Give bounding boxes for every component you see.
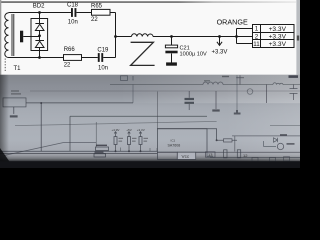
white panel background — [0, 0, 300, 75]
inductor bumps right-1 — [203, 82, 223, 85]
left bus pin stubs — [121, 148, 158, 152]
left edge sliver — [0, 0, 1, 75]
svg-text:+3.3V: +3.3V — [269, 26, 287, 33]
diagonal fold wire — [4, 143, 96, 156]
pin 13 box — [206, 152, 216, 157]
bridge BD2 box — [31, 19, 48, 51]
mid ground — [234, 110, 241, 114]
photo background — [0, 75, 300, 168]
cap to ground top right — [236, 75, 244, 84]
wire: C18 to R65 — [77, 12, 92, 14]
node: bridge mid junction — [38, 34, 41, 37]
transformer T1 primary coil — [5, 13, 9, 58]
speaker blob — [188, 91, 190, 110]
line y125 right — [270, 125, 300, 127]
svg-text:IC1: IC1 — [171, 139, 176, 143]
right cluster labels — [280, 134, 287, 135]
capacitor C21 leads — [171, 37, 173, 63]
svg-text:11: 11 — [253, 41, 260, 48]
capacitor C18 plates — [71, 8, 73, 17]
supply arrow 2 — [128, 132, 131, 137]
right edge sliver — [296, 0, 300, 75]
svg-text:R65: R65 — [91, 4, 103, 10]
bottom black band — [0, 161, 300, 168]
svg-text:+3.3V: +3.3V — [269, 41, 287, 48]
svg-text:1: 1 — [255, 26, 259, 33]
left vignette of photo — [0, 75, 9, 168]
IC top wire — [157, 129, 216, 141]
wire: main +3.3V bus — [116, 36, 253, 38]
capacitor C19 plates — [98, 53, 100, 62]
svg-text:10n: 10n — [98, 66, 108, 72]
svg-text:C19: C19 — [97, 47, 109, 53]
IC box — [157, 129, 207, 153]
resistor vert 3 — [139, 137, 142, 145]
diode circle part — [247, 89, 253, 95]
left horiz resistor 2 — [94, 154, 106, 157]
L wire mid — [70, 116, 207, 151]
svg-text:SA7608: SA7608 — [168, 144, 181, 148]
wire: bridge top lead — [39, 13, 41, 24]
node: arrow tap — [218, 35, 221, 38]
transistor circle — [277, 143, 283, 149]
svg-text:22: 22 — [64, 63, 71, 69]
svg-text:10n: 10n — [68, 20, 78, 26]
resistor R65 body — [92, 9, 111, 15]
inductor bumps right-2 — [273, 83, 283, 85]
bus right segment — [196, 152, 300, 157]
supply arrow 3 — [139, 132, 142, 137]
IC sub box Vcc — [177, 152, 195, 159]
svg-text:R66: R66 — [64, 47, 76, 53]
wire y140 — [217, 139, 237, 141]
wire: R65 to right corner — [110, 12, 116, 14]
diode D-upper of BD2 — [35, 24, 44, 31]
vertical x216 with ground — [215, 91, 217, 109]
dark cap bar top right edge — [289, 75, 299, 78]
connector table outline — [253, 25, 295, 48]
supply arrow 1 — [114, 132, 117, 137]
svg-text:ORANGE: ORANGE — [217, 18, 248, 27]
svg-text:+5V: +5V — [126, 128, 131, 132]
vertical into left resistors — [95, 122, 97, 147]
resistor vert 1 — [114, 137, 117, 145]
svg-text:T1: T1 — [14, 66, 22, 72]
node: bridge bottom junction — [38, 56, 41, 59]
pin stub 13 — [207, 152, 213, 156]
resistor R66 body — [64, 55, 82, 61]
svg-text:+3.3V: +3.3V — [137, 128, 145, 132]
wire to connector row 1 — [237, 28, 253, 30]
junction dots bottom — [40, 102, 42, 104]
C21 bottom plate (solid) — [165, 51, 177, 54]
wire to connector row 3 — [237, 43, 253, 45]
C21 top plate (open) — [165, 45, 177, 48]
small box component top — [121, 76, 128, 81]
node: bridge top junction — [38, 11, 41, 14]
tiny photo text marks — [11, 76, 295, 159]
svg-text:+3.3V: +3.3V — [269, 34, 287, 41]
transformer core lines — [12, 14, 14, 56]
node: connector stub tap — [235, 35, 238, 38]
left resistor labels — [96, 145, 107, 146]
left box ground stub — [13, 107, 15, 114]
connector row lines — [253, 33, 295, 40]
vertical wire x266 — [266, 85, 268, 104]
vertical resistor bottom right — [237, 150, 240, 158]
resistor after IC — [224, 139, 233, 142]
svg-text:BD2: BD2 — [33, 4, 45, 10]
tick component — [132, 76, 134, 81]
right edge dark blob — [297, 36, 299, 41]
vertical from wire — [40, 103, 42, 151]
svg-text:2: 2 — [255, 33, 259, 40]
text above left box — [11, 90, 19, 91]
top border line of panel — [0, 2, 296, 3]
faint line above cluster — [15, 121, 217, 125]
connector column divider — [260, 25, 262, 48]
wire: bridge middle segment — [39, 31, 41, 41]
wire: primary bottom to R66 — [9, 57, 64, 59]
wire: bridge bottom lead — [39, 48, 41, 58]
resistor feet — [116, 145, 141, 152]
right cluster small box — [264, 141, 277, 147]
wire from left box — [26, 102, 133, 104]
svg-text:+3.3V: +3.3V — [212, 50, 228, 56]
+3.3V arrow down — [217, 37, 222, 46]
transformer frame dashed edge — [4, 59, 6, 72]
junction dots — [20, 8, 238, 66]
diode right — [274, 138, 278, 142]
tiny label above right wire — [222, 76, 229, 77]
left input box — [3, 98, 26, 107]
wire: right vertical joining branches — [115, 13, 117, 58]
right cluster wire — [232, 136, 300, 152]
wire: primary top to C18 — [9, 12, 72, 14]
svg-text:+4.9V: +4.9V — [112, 128, 120, 132]
faint long wire upper — [30, 90, 300, 92]
svg-text:13: 13 — [208, 152, 213, 157]
Z watermark glyph — [131, 42, 155, 65]
right edge caps — [290, 85, 298, 101]
svg-text:Vcc: Vcc — [182, 154, 190, 159]
connector stub vertical — [236, 29, 238, 44]
inductor L bumps on bus — [132, 34, 154, 37]
wire: R66 to C19 — [82, 57, 98, 59]
node: bus left junction — [114, 35, 117, 38]
second vertical resistor pair — [224, 150, 227, 158]
IC left vertical feed — [156, 92, 158, 129]
right bus pin boxes — [252, 157, 258, 161]
IC sub box left — [157, 152, 177, 159]
wire: C19 to right vertical — [103, 57, 115, 59]
C21 ground bar — [166, 62, 177, 65]
left horiz resistor 1 — [96, 147, 109, 151]
svg-text:12: 12 — [243, 153, 248, 158]
node: C21 tap — [170, 35, 173, 38]
svg-text:1000µ 10V: 1000µ 10V — [180, 51, 207, 57]
transformer secondary winding bar — [20, 31, 23, 43]
bottom bus double line — [0, 151, 157, 153]
svg-text:22: 22 — [91, 17, 98, 23]
diode D-lower of BD2 — [35, 41, 44, 48]
resistor side labels — [119, 138, 124, 139]
wire: transformer secondary to bridge — [23, 36, 39, 38]
wire with inductors right — [110, 84, 300, 86]
labels of top schematic — [14, 2, 287, 72]
svg-text:C18: C18 — [67, 2, 79, 8]
left box ground bar — [10, 115, 18, 117]
vertical right of wire — [132, 85, 134, 103]
bottom-left dark wedge — [0, 148, 14, 168]
resistor vert 2 — [128, 137, 131, 145]
mid vertical x237 — [236, 75, 238, 110]
